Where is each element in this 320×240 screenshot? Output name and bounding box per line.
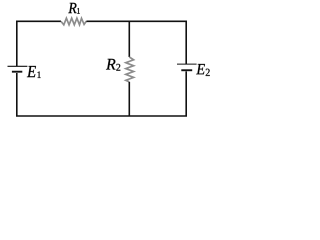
label E2 <box>196 64 205 74</box>
resistor R2 <box>126 57 134 82</box>
wire: left branch below E1, bottom wire, right branch below E2 <box>17 71 186 116</box>
wire: middle branch from R2 down to bottom wire <box>128 82 130 116</box>
battery E2 long plate <box>177 63 197 65</box>
label E1 <box>27 66 36 77</box>
resistor R1 <box>61 18 86 25</box>
label R1 <box>68 3 76 13</box>
wire: top wire from R1 to top-right corner, down right side to E2 <box>86 21 186 64</box>
label R2 <box>106 59 116 70</box>
wire: left branch top (E1 to top-left corner) and top wire to R1 <box>17 21 61 66</box>
wire: middle branch from top wire down to R2 <box>128 21 130 57</box>
battery E1 long plate <box>8 65 28 67</box>
battery E1 short plate <box>12 71 22 73</box>
battery E2 short plate <box>181 69 192 71</box>
